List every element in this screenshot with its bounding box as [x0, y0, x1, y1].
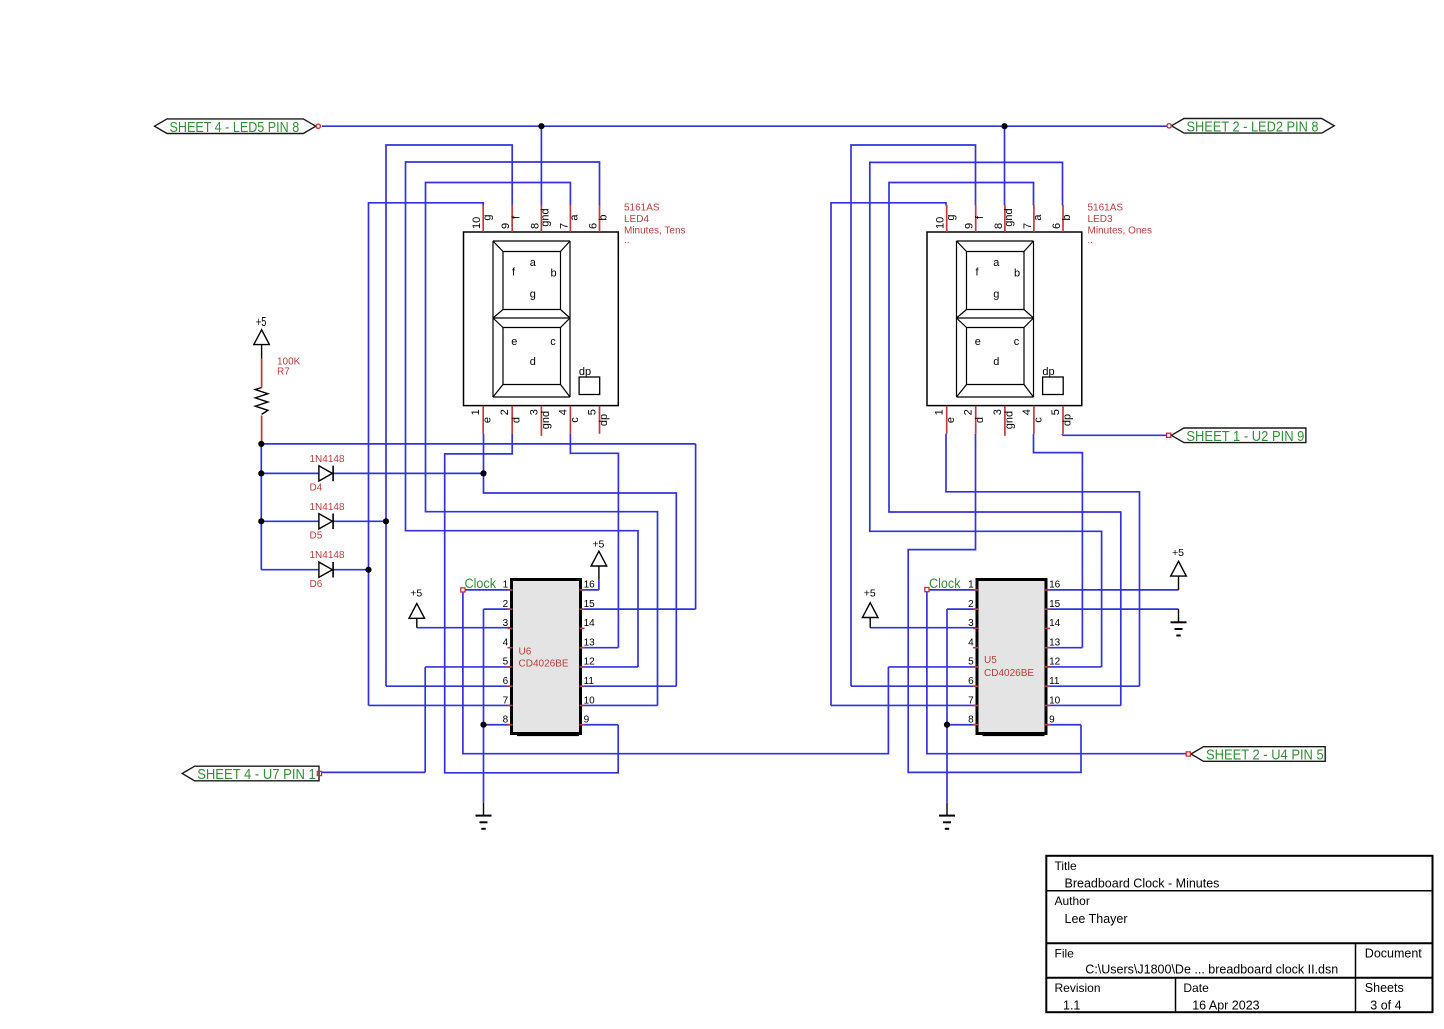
svg-text:16 Apr 2023: 16 Apr 2023	[1192, 998, 1259, 1012]
svg-text:LED3: LED3	[1088, 214, 1113, 225]
svg-text:c: c	[1014, 336, 1020, 348]
svg-text:7: 7	[1022, 223, 1034, 229]
svg-text:10: 10	[584, 695, 596, 706]
ground at U5 pin15	[1171, 609, 1187, 635]
svg-text:7: 7	[968, 695, 974, 706]
wire top rail LED gnd net	[322, 126, 1167, 205]
svg-text:b: b	[598, 214, 610, 220]
svg-text:11: 11	[1049, 676, 1060, 687]
wire U5 pin16 +5	[1047, 589, 1179, 591]
U6 pin stubs	[508, 590, 585, 725]
svg-text:SHEET 2 - LED2 PIN 8: SHEET 2 - LED2 PIN 8	[1187, 118, 1319, 135]
svg-text:1: 1	[968, 580, 974, 591]
svg-text:d: d	[974, 417, 986, 423]
wire U6 pin16 +5	[581, 589, 599, 591]
svg-text:b: b	[550, 268, 556, 280]
wire diode D4 cathode to LED4 e	[333, 472, 483, 474]
svg-text:11: 11	[584, 676, 595, 687]
svg-text:dp: dp	[1061, 414, 1073, 426]
power +5 at U5 pin16	[1171, 547, 1187, 590]
U6 pin numbers	[503, 580, 596, 726]
wire U6 clock net from U5 carry	[463, 590, 977, 754]
wire diode D5 anode	[261, 520, 319, 522]
svg-text:+5: +5	[1172, 547, 1184, 559]
svg-text:+5: +5	[592, 539, 604, 551]
svg-text:dp: dp	[1042, 366, 1054, 378]
svg-text:g: g	[530, 289, 536, 301]
svg-text:7: 7	[558, 223, 570, 229]
wire diode D6 anode	[261, 569, 319, 571]
svg-text:4: 4	[503, 637, 509, 648]
svg-text:U5: U5	[984, 655, 997, 666]
svg-text:dp: dp	[579, 366, 591, 378]
power +5 at U5 pin3	[862, 588, 878, 628]
wire U5 clock net to sheet port	[927, 590, 1186, 754]
svg-text:7: 7	[503, 695, 509, 706]
svg-text:6: 6	[968, 676, 974, 687]
wire LED4 segment d net	[445, 434, 619, 773]
svg-text:5: 5	[587, 409, 599, 415]
svg-text:13: 13	[1049, 637, 1061, 648]
LED4 top pin 9 (f)	[500, 205, 522, 232]
svg-text:1N4148: 1N4148	[310, 550, 345, 561]
svg-text:1: 1	[470, 409, 482, 415]
LED3 bottom pin 1 (e)	[934, 406, 957, 434]
LED3 bottom pin 3 (gnd)	[992, 406, 1015, 436]
svg-text:+5: +5	[410, 588, 422, 600]
IC U6 CD4026BE body	[512, 580, 581, 737]
svg-text:gnd: gnd	[1003, 208, 1015, 226]
svg-text:a: a	[993, 257, 1000, 269]
wire U6 pin2 to pin8 ground net	[484, 609, 512, 803]
svg-text:SHEET 1 - U2 PIN 9: SHEET 1 - U2 PIN 9	[1186, 428, 1304, 445]
wire LED4 segment e net	[484, 434, 677, 686]
LED3 reference labels	[1088, 203, 1152, 247]
svg-text:D5: D5	[310, 531, 323, 542]
svg-text:Title: Title	[1055, 859, 1078, 873]
svg-text:C:\Users\J1800\De ... breadboa: C:\Users\J1800\De ... breadboard clock I…	[1085, 963, 1338, 977]
LED4 bottom pin 3 (gnd)	[528, 406, 551, 436]
svg-text:gnd: gnd	[540, 208, 552, 226]
node Clock at U5 pin1	[925, 575, 962, 592]
LED4 top pin 10 (g)	[471, 205, 493, 232]
wire U6 pin3 +5 net	[417, 627, 511, 629]
svg-text:3: 3	[503, 618, 509, 629]
svg-text:2: 2	[963, 409, 975, 415]
wire LED3 segment a net	[889, 183, 1121, 706]
svg-text:6: 6	[503, 676, 509, 687]
wire LED4 segment g net	[369, 203, 512, 706]
svg-text:U6: U6	[519, 646, 532, 657]
svg-text:3: 3	[968, 618, 974, 629]
7-segment display LED4 body	[464, 232, 619, 406]
junction D6 cathode / g net	[365, 567, 371, 573]
svg-text:Author: Author	[1055, 894, 1090, 908]
svg-text:D6: D6	[310, 579, 323, 590]
wire LED3 segment e net	[946, 434, 1140, 686]
svg-text:1: 1	[934, 409, 946, 415]
power +5 at U6 pin3	[409, 588, 425, 628]
svg-text:c: c	[550, 336, 556, 348]
svg-text:Clock: Clock	[929, 575, 961, 591]
U5 pin numbers	[968, 580, 1061, 726]
ground at U6 pin8	[476, 803, 492, 829]
svg-text:e: e	[511, 336, 517, 348]
wire LED3 segment c net	[1034, 434, 1083, 648]
svg-text:3 of 4: 3 of 4	[1370, 998, 1401, 1012]
wire U5 pin3 +5 net	[870, 627, 976, 629]
svg-text:1N4148: 1N4148	[310, 502, 345, 513]
LED3 top pin 6 (b)	[1051, 205, 1073, 232]
svg-text:a: a	[569, 214, 581, 221]
U5 reference label	[984, 655, 1034, 679]
LED3 top pin 7 (a)	[1022, 205, 1044, 232]
port SHEET 4 - U7 PIN 1	[182, 766, 321, 783]
svg-text:Lee Thayer: Lee Thayer	[1065, 912, 1128, 926]
svg-text:e: e	[482, 417, 494, 423]
svg-text:dp: dp	[598, 414, 610, 426]
svg-text:16: 16	[584, 580, 596, 591]
LED4 bottom pin 2 (d)	[499, 406, 522, 434]
svg-text:9: 9	[1049, 715, 1055, 726]
svg-text:6: 6	[588, 223, 600, 229]
svg-text:Breadboard Clock - Minutes: Breadboard Clock - Minutes	[1065, 877, 1220, 891]
svg-text:2: 2	[503, 599, 509, 610]
svg-text:10: 10	[1049, 695, 1061, 706]
svg-text:gnd: gnd	[1003, 411, 1015, 429]
svg-text:+5: +5	[864, 588, 876, 600]
wire LED4 segment b net	[406, 162, 639, 667]
LED3 top pin 8 (gnd)	[993, 205, 1015, 232]
svg-text:Sheets: Sheets	[1365, 981, 1404, 995]
wire LED4 segment f net	[386, 145, 512, 686]
port SHEET 4 - LED5 PIN 8	[155, 119, 321, 136]
LED3 top pin 9 (f)	[964, 205, 986, 232]
svg-text:d: d	[530, 356, 536, 368]
wire diode D4 anode	[261, 472, 319, 474]
svg-text:16: 16	[1049, 580, 1061, 591]
svg-text:Minutes, Ones: Minutes, Ones	[1088, 226, 1152, 237]
7-segment display LED3 body	[927, 232, 1082, 406]
LED4 reference labels	[624, 203, 686, 247]
power +5 at U6 pin16	[591, 539, 607, 590]
svg-text:Date: Date	[1183, 981, 1209, 995]
svg-text:g: g	[945, 214, 957, 220]
svg-text:e: e	[975, 336, 981, 348]
svg-text:a: a	[1032, 214, 1044, 221]
LED3 bottom pin 5 (dp)	[1050, 406, 1073, 434]
junction D5 cathode / f net	[383, 518, 389, 524]
svg-text:g: g	[481, 214, 493, 220]
junction U5 pin8 ground	[944, 722, 950, 728]
svg-text:14: 14	[584, 618, 596, 629]
wire diode D5 cathode to LED4 f	[333, 520, 386, 522]
svg-text:D4: D4	[310, 483, 323, 494]
svg-text:CD4026BE: CD4026BE	[984, 668, 1034, 679]
diode D5 1N4148	[310, 502, 345, 542]
svg-text:Document: Document	[1365, 946, 1422, 960]
LED3 top pin 10 (g)	[935, 205, 957, 232]
U6 reference label	[519, 646, 569, 669]
svg-text:R7: R7	[277, 367, 290, 378]
diode D4 1N4148	[310, 454, 345, 494]
wire LED4 segment c net	[570, 434, 618, 648]
power +5 at resistor R7	[254, 314, 270, 359]
svg-text:b: b	[1061, 214, 1073, 220]
svg-text:4: 4	[557, 409, 569, 415]
LED4 bottom pin 4 (c)	[557, 406, 580, 434]
svg-text:e: e	[945, 417, 957, 423]
svg-text:Revision: Revision	[1055, 981, 1101, 995]
svg-text:3: 3	[992, 409, 1004, 415]
junction U6 pin8 ground	[480, 722, 486, 728]
svg-text:2: 2	[968, 599, 974, 610]
wire LED3 segment d net	[908, 434, 1081, 773]
svg-text:LED4: LED4	[624, 214, 649, 225]
junction D5 anode	[258, 518, 264, 524]
svg-text:5: 5	[968, 657, 974, 668]
svg-text:1.1: 1.1	[1063, 998, 1080, 1012]
svg-text:b: b	[1014, 268, 1020, 280]
svg-text:c: c	[1032, 417, 1044, 423]
svg-text:+5: +5	[256, 314, 267, 329]
junction top rail at LED3 pin8	[1001, 123, 1007, 129]
svg-text:d: d	[511, 417, 523, 423]
junction D4 cathode / e net	[480, 470, 486, 476]
svg-text:CD4026BE: CD4026BE	[519, 659, 569, 670]
LED4 top pin 6 (b)	[588, 205, 610, 232]
IC U5 CD4026BE body	[977, 580, 1046, 737]
diode D6 1N4148	[310, 550, 345, 590]
svg-text:6: 6	[1051, 223, 1063, 229]
svg-text:8: 8	[503, 715, 509, 726]
wire LED3 dp to sheet port	[1063, 434, 1167, 436]
junction R7 output	[258, 441, 264, 447]
U5 pin stubs	[973, 590, 1050, 725]
svg-text:9: 9	[584, 715, 590, 726]
wire LED4 segment a net	[426, 183, 658, 706]
port SHEET 1 - U2 PIN 9	[1167, 428, 1306, 445]
wire LED3 segment b net	[870, 162, 1102, 667]
LED4 bottom pin 1 (e)	[470, 406, 493, 434]
svg-text:9: 9	[500, 223, 512, 229]
LED3 bottom pin 2 (d)	[963, 406, 986, 434]
svg-text:Minutes, Tens: Minutes, Tens	[624, 226, 686, 237]
svg-text:5161AS: 5161AS	[624, 203, 660, 214]
wire diode D6 cathode to LED4 g	[333, 569, 368, 571]
svg-text:SHEET 4 - U7 PIN 1: SHEET 4 - U7 PIN 1	[197, 766, 316, 783]
port SHEET 2 - U4 PIN 5	[1186, 747, 1325, 764]
svg-text:9: 9	[964, 223, 976, 229]
svg-text:c: c	[569, 417, 581, 423]
svg-text:15: 15	[1049, 599, 1061, 610]
svg-text:File: File	[1055, 946, 1075, 960]
wire LED3 segment g net	[831, 203, 977, 706]
node Clock at U6 pin1	[461, 575, 497, 592]
svg-text:8: 8	[968, 715, 974, 726]
svg-text:SHEET 4 - LED5 PIN 8: SHEET 4 - LED5 PIN 8	[170, 119, 300, 136]
resistor R7 100K	[255, 357, 300, 444]
ground at U5 pin8	[939, 803, 955, 829]
svg-text:SHEET 2 - U4 PIN 5: SHEET 2 - U4 PIN 5	[1206, 747, 1324, 764]
svg-text:12: 12	[1049, 657, 1061, 668]
svg-text:5161AS: 5161AS	[1088, 203, 1124, 214]
wire U6 pin5 to sheet port	[322, 667, 511, 772]
LED3 bottom pin 4 (c)	[1021, 406, 1044, 434]
LED4 top pin 8 (gnd)	[529, 205, 551, 232]
svg-text:..: ..	[1088, 235, 1094, 246]
svg-text:2: 2	[499, 409, 511, 415]
svg-text:13: 13	[584, 637, 596, 648]
junction D4 anode	[258, 470, 264, 476]
svg-text:5: 5	[1050, 409, 1062, 415]
svg-text:1N4148: 1N4148	[310, 454, 345, 465]
svg-text:15: 15	[584, 599, 596, 610]
LED4 bottom pin 5 (dp)	[587, 406, 610, 434]
title block	[1046, 856, 1432, 1013]
svg-text:g: g	[993, 289, 999, 301]
svg-text:a: a	[530, 257, 537, 269]
svg-text:14: 14	[1049, 618, 1061, 629]
svg-text:4: 4	[1021, 409, 1033, 415]
svg-text:12: 12	[584, 657, 596, 668]
svg-text:..: ..	[624, 235, 630, 246]
wire LED3 segment f net	[851, 145, 977, 686]
svg-text:d: d	[993, 356, 999, 368]
svg-text:1: 1	[503, 580, 509, 591]
svg-text:4: 4	[968, 637, 974, 648]
svg-text:Clock: Clock	[465, 575, 497, 591]
wire resistor R7 net to U6 pin15	[261, 444, 695, 609]
svg-text:gnd: gnd	[540, 411, 552, 429]
port SHEET 2 - LED2 PIN 8	[1167, 118, 1334, 135]
wire U5 pin2 to pin8 ground net	[947, 609, 977, 803]
svg-text:3: 3	[528, 409, 540, 415]
wire U5 pin15 ground	[1047, 608, 1179, 610]
junction top rail at LED4 pin8	[538, 123, 544, 129]
svg-text:5: 5	[503, 657, 509, 668]
LED4 top pin 7 (a)	[558, 205, 580, 232]
